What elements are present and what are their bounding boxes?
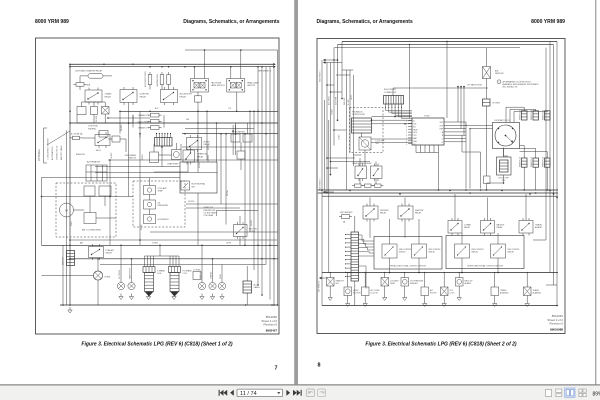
component charge pump — [172, 150, 182, 160]
LPG regulator — [483, 99, 491, 106]
relay K11 seat — [398, 206, 413, 219]
wire extra h1 — [182, 146, 278, 148]
svg-text:Revision 6: Revision 6 — [264, 323, 278, 327]
wire extra h4 — [42, 196, 134, 198]
svg-text:LPG REG: LPG REG — [492, 103, 501, 105]
wire plug lead 2 — [509, 109, 511, 122]
wire — [333, 60, 335, 146]
wire extra v7 — [41, 178, 43, 246]
ground — [526, 301, 528, 304]
wire relay to row — [82, 101, 106, 103]
wire — [236, 92, 238, 111]
wire long H b — [372, 119, 413, 121]
svg-text:8902457: 8902457 — [266, 328, 278, 332]
fuse F5 vertical — [160, 75, 164, 85]
svg-text:STOP+TURN: STOP+TURN — [137, 121, 149, 123]
ground — [131, 294, 133, 297]
module driver cell 1 — [382, 244, 397, 258]
junction — [459, 272, 460, 273]
fuse F3 — [73, 136, 80, 139]
spark plug P1 — [522, 111, 528, 120]
field dropdown mark — [277, 392, 280, 394]
wire top bus B — [338, 44, 554, 46]
svg-text:P2 SPARK: P2 SPARK — [183, 269, 193, 272]
component bottom GRAB PLT SOL — [327, 278, 335, 287]
svg-text:CONNECTED TO: CONNECTED TO — [57, 145, 59, 160]
connector J3 (vertical hatched) — [243, 281, 252, 293]
component bottom BACK UP ALARM — [456, 278, 464, 287]
wire — [217, 210, 259, 212]
wire extra h8 — [150, 231, 278, 233]
svg-text:PRESSURE: PRESSURE — [158, 205, 169, 207]
svg-text:HOUR: HOUR — [220, 273, 222, 279]
svg-text:SOL: SOL — [336, 283, 340, 285]
ground — [69, 307, 71, 310]
svg-text:B+ 12V: B+ 12V — [348, 99, 350, 105]
sensor air — [483, 67, 491, 79]
lamp gauge G4 — [198, 282, 205, 289]
wire lower bus 3 — [100, 264, 265, 266]
svg-text:IGN PWR: IGN PWR — [344, 97, 346, 105]
wire cell feeds — [389, 219, 391, 244]
svg-text:1: 1 — [499, 82, 500, 84]
wire extra h5 — [186, 203, 278, 205]
wire lamp feeds — [194, 67, 196, 76]
svg-text:16 PPL: 16 PPL — [226, 243, 232, 245]
svg-text:HYDRAULIC: HYDRAULIC — [352, 110, 364, 113]
wire plug drops — [523, 167, 525, 190]
relay K3 lighting — [120, 90, 137, 103]
junction — [321, 189, 323, 191]
page gap separator — [294, 0, 298, 385]
relay K1 crank — [85, 90, 102, 102]
connector J4 pins — [385, 104, 387, 108]
svg-text:ACCESSORY FEED: ACCESSORY FEED — [144, 71, 147, 87]
wire ECM to distributor 1 — [466, 124, 493, 126]
component bottom ALT EXCITE — [421, 287, 429, 296]
wire ECM bottom pins — [415, 145, 417, 153]
relay K13 backup — [481, 221, 495, 234]
svg-text:LP FUEL: LP FUEL — [194, 269, 201, 271]
svg-text:BRN/ORG: BRN/ORG — [76, 154, 85, 156]
wire top bus C — [334, 47, 520, 49]
svg-text:SEE SHEET 1: SEE SHEET 1 — [320, 70, 322, 82]
wire — [384, 273, 386, 278]
svg-text:CHAR PUMP: CHAR PUMP — [167, 163, 179, 166]
lamp gauge G5 — [209, 282, 216, 289]
resistor R2 — [91, 107, 98, 115]
ignition coil T2 — [169, 267, 181, 273]
wire — [526, 273, 528, 288]
wire extra — [327, 157, 355, 159]
switch box S2 tail/horn lamp — [191, 79, 209, 93]
left document page — [0, 0, 294, 385]
wire option leads — [47, 131, 70, 145]
svg-text:DISTRIBUTOR (1): DISTRIBUTOR (1) — [495, 120, 510, 122]
junction — [194, 66, 196, 68]
svg-text:SW(CR): SW(CR) — [472, 252, 479, 254]
svg-text:OIL PRESS: OIL PRESS — [119, 269, 121, 279]
wire extra h7 — [70, 239, 277, 241]
view mode icon single page — [546, 389, 552, 396]
junction dots mid — [107, 117, 109, 119]
wire mid extra 1 — [108, 117, 150, 119]
wire — [79, 76, 81, 83]
junction — [384, 272, 385, 273]
svg-text:SENDER: SENDER — [410, 283, 418, 285]
wire extra h6 — [186, 207, 240, 209]
wire plug row2 lead 1 — [520, 145, 525, 147]
svg-text:SW(CR): SW(CR) — [399, 252, 406, 254]
lamp L1 — [102, 107, 110, 115]
fuse F2 — [76, 83, 84, 87]
distributor rotor — [506, 136, 513, 143]
ground — [221, 294, 223, 297]
wire right bundle 3 — [265, 67, 267, 265]
wire — [364, 273, 366, 288]
junction — [404, 272, 405, 273]
svg-text:2: 2 — [406, 124, 407, 126]
svg-text:SOL: SOL — [376, 143, 380, 145]
wire coil feeds — [144, 256, 146, 261]
hour meter P1 — [231, 134, 240, 142]
wire mid extra 7 — [197, 111, 199, 172]
wire right bundle 7 — [253, 111, 255, 270]
ground — [329, 295, 331, 298]
svg-text:4: 4 — [406, 129, 407, 131]
wire top bus line 2 — [70, 66, 273, 68]
svg-text:ACC FEED: ACC FEED — [328, 96, 331, 105]
svg-text:CRANK: CRANK — [105, 93, 113, 96]
component block A2 — [99, 186, 111, 196]
ground — [404, 295, 406, 298]
connector J1 pins — [156, 134, 158, 138]
button previous view (disabled) — [307, 389, 315, 397]
page number field — [237, 389, 283, 396]
dashed boundary belt and tensioner — [56, 183, 116, 237]
wire — [349, 70, 351, 153]
ground — [148, 294, 150, 297]
wire from J5 down — [359, 266, 367, 289]
controller U2 — [352, 118, 372, 133]
wire — [277, 50, 279, 64]
svg-text:B+ FUSE 5A: B+ FUSE 5A — [71, 133, 83, 136]
wire extra h3 — [95, 166, 180, 168]
component bottom COOLANT TEMP — [381, 278, 389, 287]
fuse F4 vertical — [148, 75, 152, 85]
junction — [444, 272, 445, 273]
connector J4 (hatched) — [384, 96, 404, 105]
junction — [494, 272, 495, 273]
sensor B1 coolant temp — [144, 186, 156, 195]
wire long H a — [372, 116, 413, 118]
junction — [549, 190, 551, 192]
svg-text:1: 1 — [406, 121, 407, 123]
wire plug row2 lead 3 — [520, 151, 548, 153]
svg-text:WILL INSTALL KIT.: WILL INSTALL KIT. — [503, 86, 519, 89]
svg-text:Figure 3. Electrical Schemati: Figure 3. Electrical Schematic LPG (REV … — [365, 341, 516, 347]
wire extra v3 — [206, 111, 208, 160]
svg-text:ECM PWR: ECM PWR — [336, 96, 338, 105]
wire bottom bus B — [322, 305, 558, 307]
svg-text:ALARM(1): ALARM(1) — [500, 292, 509, 295]
wire bus H1 — [318, 189, 558, 191]
wire distributor feed — [503, 148, 505, 157]
svg-text:CHARGE: CHARGE — [210, 271, 213, 279]
svg-text:18 PNK: 18 PNK — [227, 189, 229, 196]
svg-text:18 BLU: 18 BLU — [142, 154, 144, 160]
svg-text:BATTERY CABLE: BATTERY CABLE — [60, 145, 63, 160]
junction extra — [119, 111, 121, 113]
wire stub — [334, 129, 347, 131]
svg-text:HEAD LAMP: HEAD LAMP — [247, 81, 259, 84]
svg-text:TRAVEL: TRAVEL — [500, 289, 507, 292]
wire bundle extra — [324, 100, 326, 190]
wire right bundle 5 — [273, 67, 275, 305]
wire mid bus 2 — [70, 122, 278, 124]
wire horn feed — [42, 275, 94, 277]
svg-text:LOW GEAR: LOW GEAR — [204, 214, 214, 217]
svg-text:RELAY: RELAY — [464, 226, 471, 229]
wire — [329, 273, 331, 278]
wire — [82, 137, 95, 139]
wire stub — [331, 91, 343, 93]
wire — [465, 122, 467, 189]
wire top bus line 1 — [70, 63, 273, 65]
svg-text:COOLANT: COOLANT — [390, 279, 400, 282]
svg-text:RELAY: RELAY — [415, 211, 422, 214]
svg-text:18 ORG: 18 ORG — [188, 201, 195, 203]
wire — [346, 70, 348, 190]
svg-text:RELAY: RELAY — [497, 226, 504, 229]
diode D1 — [112, 136, 120, 142]
module driver cell 3 — [455, 244, 470, 258]
wire right bundle 4 — [269, 67, 271, 300]
svg-text:1 SPARK: 1 SPARK — [157, 269, 166, 272]
wire — [337, 60, 339, 120]
svg-text:12 RED: 12 RED — [332, 109, 334, 115]
svg-text:SENSOR: SENSOR — [495, 73, 504, 75]
svg-text:8: 8 — [318, 363, 321, 369]
svg-text:TEMP: TEMP — [390, 283, 396, 285]
svg-text:AVAILABLE. REPLACEMENT INSTRUM: AVAILABLE. REPLACEMENT INSTRUMENT — [503, 83, 540, 86]
right scrollbar edge line — [595, 0, 596, 385]
fuse F6 vertical — [167, 75, 171, 85]
svg-text:CABLE: CABLE — [254, 286, 261, 289]
svg-text:LPG VAPOR HOSE: LPG VAPOR HOSE — [467, 84, 483, 87]
svg-text:ALARM(2): ALARM(2) — [533, 292, 542, 295]
svg-text:CONNECTOR: CONNECTOR — [384, 92, 397, 94]
switch S4 park brake — [150, 152, 159, 163]
alternator G1 — [86, 165, 107, 181]
module driver cell 2 — [412, 244, 427, 258]
ECM U1 — [412, 118, 444, 145]
svg-text:BATTERY: BATTERY — [62, 256, 65, 265]
lamp gauge G2 — [117, 282, 124, 289]
svg-text:Figure 3. Electrical Schemati: Figure 3. Electrical Schematic LPG (REV … — [81, 341, 232, 347]
svg-text:8: 8 — [406, 141, 407, 143]
wire — [330, 63, 332, 175]
junction — [365, 272, 366, 273]
svg-text:RELAY: RELAY — [140, 95, 147, 98]
svg-text:GOVERNOR: GOVERNOR — [158, 219, 170, 221]
note circled 1 — [497, 80, 501, 84]
switch S6 key switch — [234, 225, 248, 237]
wire — [197, 155, 199, 162]
svg-text:GRAB PLT: GRAB PLT — [336, 279, 346, 282]
spark plug P4 — [522, 158, 528, 167]
wire — [503, 149, 505, 158]
svg-text:SEAT SW: SEAT SW — [415, 209, 424, 212]
arrow from sheet 1 (upper 2) — [323, 61, 326, 64]
junction — [527, 272, 528, 273]
relay K12 combo — [448, 221, 462, 234]
svg-text:SW: SW — [192, 186, 195, 188]
wire drop to ECM top — [409, 45, 411, 118]
svg-text:18 PPL: 18 PPL — [351, 95, 353, 100]
wire — [486, 48, 488, 67]
wire drop to ECM top 2 — [446, 42, 448, 119]
wire — [97, 259, 99, 271]
wire mid extra 10 — [180, 144, 182, 150]
fuse F14 4A — [342, 215, 350, 219]
svg-text:16 BLK: 16 BLK — [141, 224, 143, 230]
wire — [494, 273, 496, 288]
svg-text:89010988: 89010988 — [550, 328, 563, 332]
svg-text:LAMP SWITCH: LAMP SWITCH — [211, 84, 225, 87]
wire left bus — [69, 64, 71, 305]
relay K2 MCR — [95, 135, 110, 146]
fuse F12 — [365, 184, 372, 187]
wire — [347, 273, 349, 288]
component bottom HORN BUTTON — [344, 287, 352, 296]
wire mid extra 8 — [216, 123, 218, 162]
component bottom OIL PRESSURE SENDER — [401, 278, 409, 287]
wire stub — [327, 167, 338, 169]
svg-text:SW(CR): SW(CR) — [508, 252, 515, 254]
control module M3 outline (lever) — [446, 236, 524, 269]
wire stub — [327, 84, 334, 86]
svg-text:14 RED: 14 RED — [251, 219, 253, 226]
wire left bus 2 — [66, 131, 68, 306]
solenoid Y1 — [359, 137, 371, 150]
wire — [424, 273, 426, 288]
svg-text:SEE SHEET 1: SEE SHEET 1 — [319, 281, 321, 292]
svg-text:ALTERNATOR IF: ALTERNATOR IF — [51, 145, 54, 160]
wire right bundle 1 — [257, 67, 259, 285]
junction — [349, 190, 351, 192]
junction — [69, 111, 71, 113]
ground — [384, 295, 386, 298]
wire — [149, 87, 151, 90]
lamp gauge G6 — [218, 282, 225, 289]
wire extra — [331, 161, 371, 163]
wire — [341, 63, 343, 99]
wire upper return line — [185, 49, 278, 51]
fuse F7 — [151, 113, 160, 117]
svg-text:MCR: MCR — [96, 150, 101, 152]
svg-text:LOCK: LOCK — [450, 293, 456, 295]
wire — [443, 273, 445, 288]
wire bus H2 — [318, 192, 558, 194]
wire — [392, 88, 394, 96]
svg-text:PEDAL DIRECTIONAL CONTROL SW/T: PEDAL DIRECTIONAL CONTROL SW/TOW — [390, 265, 426, 268]
relay K9 — [371, 166, 383, 179]
wire — [458, 273, 460, 278]
svg-text:16 GRN: 16 GRN — [96, 115, 98, 122]
wire — [342, 69, 353, 71]
svg-text:ECM: ECM — [425, 116, 430, 118]
svg-text:7: 7 — [275, 366, 278, 372]
spark plug P3 — [545, 111, 551, 120]
svg-text:7: 7 — [406, 138, 407, 140]
module seat box outline — [180, 162, 217, 193]
svg-text:FWD BRAKE: FWD BRAKE — [125, 154, 137, 157]
svg-text:ALARM: ALARM — [465, 282, 472, 285]
bracket line — [43, 128, 45, 163]
fuse F1 30A — [88, 74, 103, 79]
ground — [347, 301, 349, 304]
arrow to sheet 2 (upper) — [273, 63, 276, 66]
wire right bundle 2 — [261, 67, 263, 295]
ground — [173, 294, 175, 297]
svg-text:LIGHTING: LIGHTING — [140, 94, 150, 96]
wire extra v1 — [119, 111, 121, 133]
junction — [245, 304, 247, 306]
svg-text:18 GRY: 18 GRY — [111, 152, 113, 159]
wire mid extra 4 — [42, 177, 181, 179]
wire loop bottom — [77, 122, 133, 124]
svg-text:COIL: COIL — [157, 273, 161, 275]
svg-text:AIR: AIR — [495, 69, 499, 72]
dashed boundary engine — [133, 181, 185, 227]
component block A1 — [84, 186, 95, 196]
toolbar separator line — [0, 384, 600, 385]
svg-text:LIGHTING FEED: LIGHTING FEED — [157, 73, 159, 87]
svg-text:TEMP: TEMP — [158, 191, 164, 193]
dashed boundary hydraulic — [350, 108, 384, 153]
view mode icon facing (active) — [565, 388, 575, 397]
svg-text:B+: B+ — [413, 121, 415, 123]
svg-text:A/C COMP: A/C COMP — [371, 289, 381, 292]
svg-text:SWITCH: SWITCH — [247, 85, 255, 87]
wire — [454, 194, 456, 221]
junction — [197, 111, 199, 113]
sensor B3 governor — [144, 215, 156, 224]
junction bundle — [257, 245, 259, 247]
svg-text:TRAVEL: TRAVEL — [533, 289, 540, 292]
svg-text:ALTERNATOR: ALTERNATOR — [87, 161, 101, 164]
page1 schematic border — [36, 38, 280, 334]
arrow to sheet 1 (bottom left) — [319, 277, 322, 280]
wire extra v6 — [244, 134, 246, 246]
junction — [149, 66, 151, 68]
svg-text:REF: REF — [440, 129, 443, 131]
svg-text:EST: EST — [440, 122, 443, 124]
wire ECM outputs — [449, 121, 467, 123]
svg-text:Diagrams, Schematics, or Arran: Diagrams, Schematics, or Arrangements — [183, 19, 279, 25]
connector J5 pins — [346, 234, 352, 236]
ground — [443, 301, 445, 304]
component bottom TRAVEL ALARM(1) — [491, 287, 499, 296]
wire bottom bus A — [322, 272, 558, 274]
ground — [212, 294, 214, 297]
component block A3 — [84, 213, 96, 224]
svg-text:OPTIONAL: OPTIONAL — [38, 148, 41, 161]
svg-text:SW/SND: SW/SND — [88, 128, 97, 130]
wire — [239, 216, 241, 225]
svg-text:COOLANT: COOLANT — [158, 187, 168, 190]
